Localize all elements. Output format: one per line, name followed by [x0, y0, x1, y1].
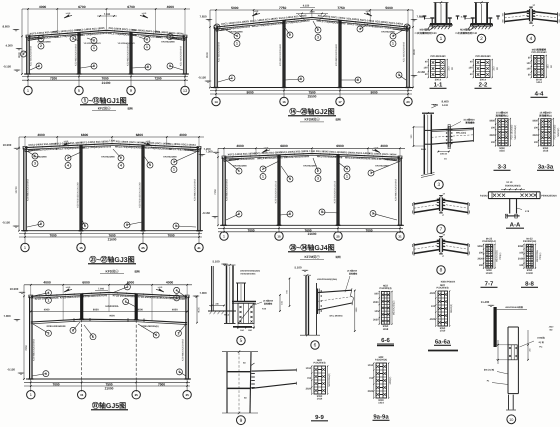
section A-A top dim ticks	[501, 188, 525, 190]
svg-text:9: 9	[130, 88, 132, 93]
section 9a-9a right dim line	[388, 363, 390, 398]
svg-text:2: 2	[289, 33, 291, 37]
detail 6 beam top flange	[318, 290, 353, 292]
svg-text:-0.150: -0.150	[3, 65, 11, 69]
svg-text:5050: 5050	[518, 245, 524, 248]
svg-text:P.5X200(4): P.5X200(4)	[375, 359, 387, 362]
svg-text:7750: 7750	[337, 6, 345, 10]
frame GJ4 rafter member label left	[228, 150, 310, 162]
section 2-2 right dim line	[491, 60, 493, 78]
section 6a-6a heavy underline	[428, 350, 458, 352]
detail 4 splice bolts	[527, 10, 530, 12]
svg-text:6a-6a: 6a-6a	[435, 339, 451, 346]
frame GJ4 roof slope flag left	[262, 149, 267, 152]
detail 4 right beam	[532, 12, 557, 15]
svg-text:1818: 1818	[383, 328, 389, 331]
frame GJ3 eave haunch right	[184, 149, 199, 151]
svg-text:1: 1	[231, 76, 233, 80]
svg-text:10100: 10100	[486, 272, 493, 275]
svg-text:9: 9	[372, 212, 374, 216]
svg-text:KZ4-M400X200X6X8: KZ4-M400X200X6X8	[194, 178, 197, 200]
detail 4 bubble	[527, 34, 535, 42]
svg-text:1: 1	[223, 233, 225, 238]
frame GJ1 top dimension line 4000/6700/6700/4000	[22, 8, 190, 10]
detail 8 bubble	[437, 266, 445, 274]
frame GJ4 column C interior	[336, 155, 338, 226]
frame GJ5 roof slope flag right	[159, 289, 164, 292]
svg-text:9: 9	[178, 370, 180, 374]
section 9-9 bolt group	[314, 366, 326, 394]
svg-text:KF2M见㊀: KF2M见㊀	[304, 118, 320, 122]
svg-text:5000: 5000	[385, 6, 393, 10]
detail 1 anchor bolt left	[431, 18, 433, 24]
svg-text:1: 1	[47, 299, 49, 303]
frame GJ4 axis bubble 28	[223, 225, 225, 233]
detail 10 bottom stem	[508, 395, 510, 410]
detail 10 box extension dims	[496, 344, 508, 346]
svg-text:10.9级M20: 10.9级M20	[263, 300, 274, 303]
svg-text:2020: 2020	[368, 390, 374, 393]
detail 10 inner bolt box	[508, 345, 517, 360]
svg-text:10100: 10100	[526, 272, 533, 275]
svg-text:6800: 6800	[136, 133, 144, 137]
frame GJ1 axis bubble 9	[130, 74, 132, 87]
detail 1 plate bolt dots	[432, 25, 433, 26]
svg-text:8: 8	[321, 210, 323, 214]
frame GJ5 base line	[26, 378, 191, 380]
svg-text:P.20X2: P.20X2	[480, 194, 488, 197]
frame GJ5 lower beam splice ticks	[73, 318, 75, 321]
section A-A flange plates	[488, 191, 540, 193]
frame GJ4 bottom dimension 7000/7600/7000	[218, 227, 403, 229]
detail 5 heavy bar under box	[233, 326, 252, 328]
svg-text:9: 9	[240, 418, 243, 424]
frame GJ5 top dimension line 4000/6000/6000/4000	[24, 284, 192, 286]
svg-text:2-2: 2-2	[479, 82, 488, 89]
svg-text:9.150: 9.150	[303, 5, 310, 8]
frame GJ5 rafter purlin ticks	[39, 295, 41, 297]
frame GJ2 bottom dimension 9000/7500/9000	[210, 90, 412, 92]
frame GJ5 right side dimension 4000	[196, 296, 198, 323]
frame GJ5 bottom dimension 7000/7500/7000	[24, 381, 190, 383]
svg-text:1: 1	[24, 245, 26, 250]
detail 3 column	[423, 114, 425, 174]
svg-text:5000: 5000	[231, 6, 239, 10]
svg-text:KZ5-500X200X10X10: KZ5-500X200X10X10	[333, 180, 336, 203]
frame GJ1 bottom dimension 7200x3	[22, 76, 188, 78]
svg-text:KFD见㊀: KFD见㊀	[106, 269, 120, 273]
svg-text:3: 3	[173, 160, 175, 164]
svg-text:4000: 4000	[37, 133, 45, 137]
detail 5 left dim	[209, 305, 224, 307]
svg-text:41: 41	[197, 246, 201, 250]
svg-text:-0.150: -0.150	[198, 76, 206, 80]
frame GJ1 detail callouts	[34, 37, 41, 39]
frame GJ3 rafter purlin ticks	[33, 146, 35, 148]
svg-text:8: 8	[440, 268, 443, 274]
svg-text:5.100: 5.100	[442, 104, 449, 107]
svg-text:4: 4	[67, 164, 69, 168]
frame GJ5 column D (right)	[185, 296, 187, 379]
detail 9 bubble	[237, 416, 246, 425]
frame GJ2 column C interior	[338, 20, 340, 87]
frame GJ2 column D (axis 20)	[406, 27, 408, 88]
section 4-4 left dim lines	[530, 56, 532, 78]
svg-text:4: 4	[176, 289, 178, 293]
svg-text:10.9级M20: 10.9级M20	[347, 270, 358, 273]
svg-text:M500X255(2): M500X255(2)	[514, 125, 517, 140]
section 7-7 right dim line	[494, 244, 496, 268]
section 4-4 right dim line	[545, 56, 547, 78]
section 9-9 left dim lines	[311, 366, 313, 394]
svg-text:高强螺栓: 高强螺栓	[465, 121, 475, 124]
svg-text:说明: 说明	[335, 118, 341, 122]
detail 6 column	[305, 276, 307, 335]
svg-text:15: 15	[80, 393, 84, 397]
frame GJ2 rafter member label left	[220, 14, 310, 31]
svg-text:4020: 4020	[430, 292, 436, 295]
svg-text:㉑~㉗轴GJ3图: ㉑~㉗轴GJ3图	[89, 255, 134, 264]
svg-text:KZ4-M400X200X6X8: KZ4-M400X200X6X8	[27, 178, 30, 200]
svg-text:14: 14	[214, 100, 218, 104]
frame GJ3 column D (axis 27)	[197, 148, 199, 231]
svg-text:4: 4	[40, 37, 42, 41]
frame GJ3 detail callouts	[27, 151, 35, 156]
frame GJ5 column A (left)	[29, 296, 31, 379]
svg-text:H250X200A: H250X200A	[105, 305, 118, 308]
svg-text:8: 8	[300, 77, 302, 81]
section 6a-6a right dim line	[449, 291, 451, 326]
svg-text:6000: 6000	[137, 308, 143, 311]
svg-text:400X200X6X8(Q345): 400X200X6X8(Q345)	[317, 278, 337, 281]
svg-text:高强螺栓(1): 高强螺栓(1)	[539, 113, 552, 117]
frame GJ5 axis bubble B	[81, 379, 83, 392]
frame GJ2 roof slope flag left	[252, 13, 257, 16]
svg-text:3: 3	[317, 36, 319, 40]
svg-text:4: 4	[359, 27, 361, 31]
frame GJ3 column B interior	[79, 145, 81, 231]
frame GJ3 top dimension line 4000/6800/6800/4000	[19, 136, 204, 138]
svg-text:9a-9a: 9a-9a	[373, 414, 389, 421]
svg-text:8: 8	[357, 78, 359, 82]
detail 1 grout hatch	[428, 26, 430, 29]
detail 9 stiffener lower	[227, 387, 251, 389]
svg-text:6800: 6800	[81, 133, 89, 137]
detail 1 base plate	[430, 23, 452, 25]
svg-text:2020: 2020	[306, 388, 312, 391]
frame GJ1 base line	[24, 73, 189, 75]
detail 5 beam flange	[232, 300, 256, 302]
svg-text:8500: 8500	[413, 49, 416, 55]
section 6a-6a left dim lines	[435, 291, 437, 326]
svg-text:5: 5	[78, 88, 80, 93]
section 9-9 right dim line	[327, 366, 329, 394]
svg-text:1-1: 1-1	[434, 82, 443, 89]
svg-text:KZ2-M200X200X6X8: KZ2-M200X200X6X8	[74, 43, 77, 65]
frame GJ4 rafter (double line)	[224, 153, 400, 157]
detail 7 splice bolts	[437, 198, 440, 200]
svg-text:9: 9	[169, 64, 171, 68]
svg-text:100: 100	[527, 62, 532, 65]
svg-text:5.100: 5.100	[213, 260, 220, 264]
svg-text:2020: 2020	[477, 258, 483, 261]
svg-text:KZ6-M400X200X6X8: KZ6-M400X200X6X8	[182, 338, 185, 360]
frame GJ5 axis bubble D	[186, 379, 188, 392]
detail 1 column shaft	[434, 3, 436, 25]
svg-text:1: 1	[173, 168, 175, 172]
svg-text:1: 1	[93, 46, 95, 50]
svg-text:P20(4): P20(4)	[499, 252, 502, 260]
frame GJ5 overall dimension 21000	[24, 385, 190, 387]
frame GJ5 clerestory dimension line	[31, 311, 187, 313]
frame GJ2 top dimension line 5000/7750/7750/5000	[210, 9, 413, 11]
detail 7 left beam	[414, 200, 440, 204]
detail 2 anchor bolt right	[489, 18, 491, 24]
svg-text:P.5X300(4): P.5X300(4)	[436, 287, 448, 290]
section A-A flange bolts	[493, 194, 496, 197]
svg-text:-0.150: -0.150	[460, 16, 467, 19]
svg-text:3: 3	[93, 39, 95, 43]
detail 8 beam end ticks left	[413, 243, 415, 256]
svg-text:3: 3	[317, 177, 319, 181]
detail 8 splice bolts	[437, 239, 440, 241]
frame GJ2 column B interior	[282, 20, 284, 87]
frame GJ4 axis bubble 34	[399, 225, 401, 233]
frame GJ1 roof slope flag right	[143, 15, 148, 18]
svg-text:3: 3	[177, 331, 179, 335]
detail 6 beam bottom flange	[318, 303, 353, 310]
frame GJ4 axis bubble 30	[278, 225, 280, 233]
svg-text:4000: 4000	[167, 5, 175, 9]
section 6-6 right dim line	[391, 292, 393, 325]
svg-text:P.5X350(14): P.5X350(14)	[482, 240, 496, 243]
svg-text:400X200X6X8拼接: 400X200X6X8拼接	[505, 306, 523, 309]
detail 5 right leader	[254, 302, 262, 305]
svg-text:9: 9	[38, 64, 40, 68]
frame GJ1 rafter (double line)	[28, 30, 185, 36]
frame GJ1 rafter member label right	[107, 27, 186, 41]
svg-text:100: 100	[519, 251, 524, 254]
svg-text:M500(2): M500(2)	[450, 304, 453, 313]
svg-text:3a-3a: 3a-3a	[538, 164, 554, 171]
detail 9 column center dashed line	[238, 353, 240, 413]
frame GJ4 eave haunch left	[224, 159, 239, 161]
detail 10 cap note line	[497, 309, 527, 311]
detail 8 splice end plates	[439, 238, 441, 252]
svg-text:KZ6-M400X200X6X8: KZ6-M400X200X6X8	[33, 338, 36, 360]
frame GJ2 eave corner callout right	[404, 24, 410, 30]
svg-text:7.200: 7.200	[204, 147, 211, 151]
section 8-8 left dim lines	[523, 244, 525, 268]
detail 3 column cap plate	[422, 112, 434, 114]
detail 4 beam end ticks left	[504, 12, 506, 23]
detail 5 column top cut	[224, 264, 236, 266]
svg-text:6900: 6900	[336, 144, 344, 148]
svg-text:9: 9	[175, 224, 177, 228]
detail 6 left dim 700	[289, 279, 291, 307]
frame GJ2 rafter purlin ticks	[224, 25, 226, 27]
svg-text:4: 4	[530, 36, 533, 42]
svg-text:2: 2	[72, 37, 74, 41]
svg-text:2500: 2500	[310, 10, 316, 13]
svg-text:4000: 4000	[380, 144, 388, 148]
svg-text:说明: 说明	[134, 269, 140, 273]
svg-text:①~⑬轴GJ1图: ①~⑬轴GJ1图	[81, 96, 126, 105]
section 1-1 right dim line	[446, 60, 448, 78]
svg-text:A-A: A-A	[510, 221, 521, 228]
detail 8 top/bottom bolt marks	[439, 236, 443, 238]
svg-text:5: 5	[240, 338, 243, 344]
section 3a-3a bolt group	[541, 119, 551, 146]
section 3-3 left dim lines	[495, 119, 497, 146]
svg-text:4: 4	[346, 167, 348, 171]
svg-text:7: 7	[440, 227, 443, 233]
detail 9 top cut line	[222, 351, 258, 353]
svg-text:KZ5-500X200X10X10X8: KZ5-500X200X10X10X8	[76, 182, 79, 208]
detail 8 right beam	[442, 241, 468, 245]
frame GJ2 axis bubble 16	[283, 88, 285, 99]
frame GJ2 left height dimension	[209, 10, 211, 88]
frame GJ5 axis bubble A	[30, 379, 32, 392]
frame GJ4 rafter member label right	[315, 150, 397, 162]
frame GJ4 base line	[220, 224, 404, 226]
svg-text:7.000: 7.000	[200, 291, 207, 295]
svg-text:4000: 4000	[179, 133, 187, 137]
detail 7 top/bottom bolt marks	[439, 195, 443, 197]
frame GJ3 dimension extension lines	[24, 137, 26, 147]
frame GJ5 clerestory post B	[80, 294, 82, 319]
svg-text:2020: 2020	[532, 134, 538, 137]
section 6-6 bolt group	[381, 292, 389, 325]
frame GJ2 eave corner callout left	[214, 24, 220, 30]
svg-text:P.5X300(4): P.5X300(4)	[379, 287, 391, 290]
detail 9 bolt ticks on flange	[251, 373, 255, 375]
svg-text:25500: 25500	[308, 95, 317, 99]
svg-text:-0.150: -0.150	[7, 368, 15, 372]
frame GJ1 overall dimension 21400	[22, 79, 188, 81]
section 7-7 bolt group	[486, 244, 493, 268]
svg-text:5050: 5050	[532, 120, 538, 123]
svg-text:2020: 2020	[373, 319, 379, 322]
frame GJ4 left height dimension	[217, 148, 219, 225]
svg-text:PC:: PC:	[539, 346, 543, 349]
frame GJ2 overall dimension 25500	[210, 93, 412, 95]
svg-text:M500X255(2): M500X255(2)	[392, 300, 395, 315]
detail 3 under-beam dim 100 15	[438, 151, 449, 153]
svg-text:4: 4	[47, 291, 49, 295]
detail 6 bubble	[311, 341, 319, 349]
svg-text:7350: 7350	[214, 189, 217, 195]
svg-text:M24锚栓: M24锚栓	[420, 27, 430, 31]
frame GJ5 witness lines between chords	[62, 297, 64, 321]
frame GJ4 overall dimension 21600	[218, 231, 403, 233]
svg-text:P500X255X20: P500X255X20	[541, 194, 557, 197]
svg-text:2: 2	[40, 44, 42, 48]
detail 3 column break	[421, 173, 435, 176]
svg-text:JQ 设: JQ 设	[538, 341, 544, 344]
detail 4 splice end plates	[529, 9, 531, 21]
detail 5 bolt box	[238, 303, 254, 323]
detail 7 beam end ticks right	[467, 202, 469, 215]
frame GJ4 rafter purlin ticks	[232, 156, 234, 158]
detail 10 bubble	[507, 415, 516, 424]
svg-text:3: 3	[47, 331, 49, 335]
frame GJ4 eave haunch right	[385, 159, 400, 161]
svg-text:21400: 21400	[102, 81, 111, 85]
svg-text:100: 100	[479, 251, 484, 254]
frame GJ5 upper rafter (double line)	[31, 292, 187, 296]
detail 9 beam end ticks	[296, 369, 298, 372]
svg-text:15: 15	[277, 234, 281, 238]
frame GJ3 left height dimension 10700	[18, 137, 20, 231]
svg-text:KFZ-M24X60: KFZ-M24X60	[101, 156, 115, 159]
svg-text:(00 (AL/B): (00 (AL/B)	[484, 369, 495, 372]
svg-text:4: 4	[392, 34, 394, 38]
svg-text:25: 25	[135, 393, 139, 397]
detail 5 bottom ledger	[208, 310, 236, 312]
frame GJ5 column B lower segment (dashed)	[81, 319, 83, 379]
section A-A weld leader	[517, 208, 523, 210]
svg-text:-0.150: -0.150	[2, 221, 10, 225]
svg-text:9: 9	[40, 222, 42, 226]
detail 8 left beam	[414, 241, 440, 245]
detail 3 column stiffeners	[424, 129, 431, 131]
svg-text:25: 25	[141, 246, 145, 250]
svg-text:KFZ-M24X60: KFZ-M24X60	[233, 165, 247, 168]
svg-text:10.500: 10.500	[3, 143, 12, 147]
svg-text:100: 100	[469, 67, 474, 70]
detail 10 cap bar	[494, 307, 497, 347]
frame GJ2 roof slope flag right	[367, 13, 372, 16]
frame GJ4 top dimension line 4000/6800/6900/4000	[218, 147, 405, 149]
svg-text:100: 100	[534, 127, 539, 130]
detail 2 column shaft	[475, 3, 477, 25]
detail 9 beam top flange	[252, 370, 297, 371]
svg-text:KZ5-500X200X10X10X8: KZ5-500X200X10X10X8	[138, 182, 141, 208]
detail 4 beam end ticks right	[557, 12, 559, 23]
svg-text:8-8: 8-8	[525, 281, 534, 288]
svg-text:KZ4-M400X200X6X8: KZ4-M400X200X6X8	[226, 178, 229, 200]
svg-text:2: 2	[169, 35, 171, 39]
svg-text:二次浇灌细石砼C40: 二次浇灌细石砼C40	[455, 31, 478, 35]
svg-text:8.600: 8.600	[3, 25, 10, 29]
svg-text:2: 2	[126, 285, 128, 289]
detail 6 right break and dim	[351, 288, 353, 296]
svg-text:1: 1	[30, 392, 32, 397]
svg-text:6000: 6000	[82, 281, 90, 285]
svg-text:⑭~⑳轴GJ2图: ⑭~⑳轴GJ2图	[289, 107, 334, 116]
section 2-2 bolt group	[476, 60, 491, 78]
svg-text:25: 25	[336, 234, 340, 238]
frame GJ1 eave haunch left	[28, 38, 43, 40]
detail 2 plate bolt dots	[472, 25, 473, 26]
svg-text:7.000: 7.000	[4, 314, 11, 318]
svg-text:KZ3-M200X200X6X8: KZ3-M200X200X6X8	[279, 43, 282, 65]
detail 3 bubble	[434, 180, 443, 189]
frame GJ1 left height dimension 8600	[21, 9, 23, 74]
frame GJ4 column B interior	[277, 155, 279, 226]
svg-text:4000: 4000	[236, 144, 244, 148]
detail 10 right dim lines	[527, 330, 529, 360]
frame GJ2 dimension extension lines	[215, 10, 217, 26]
frame GJ1 column B (interior)	[77, 32, 79, 74]
svg-text:11.400: 11.400	[481, 300, 490, 304]
svg-text:1414: 1414	[378, 402, 384, 405]
svg-text:-0.150: -0.150	[202, 211, 210, 215]
frame GJ4 roof slope flag right	[375, 149, 380, 152]
frame GJ3 axis bubble 25	[142, 231, 144, 245]
frame GJ1 eave haunch right	[170, 38, 185, 40]
